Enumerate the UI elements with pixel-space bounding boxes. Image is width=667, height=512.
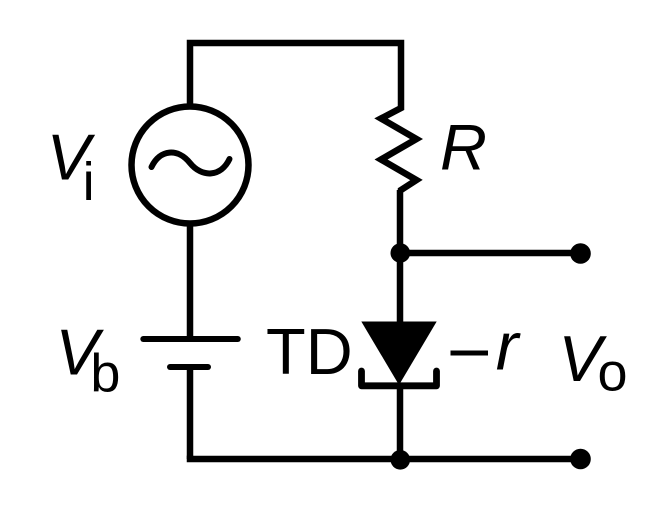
svg-text:R: R [440, 111, 487, 184]
wire battery to bottom [187, 367, 194, 459]
svg-text:TD: TD [266, 315, 353, 388]
AC source Vi circle [132, 107, 249, 224]
svg-text:i: i [83, 152, 95, 212]
node A junction dot [391, 243, 411, 263]
output terminal top dot [570, 243, 591, 264]
wire output top [400, 250, 580, 257]
wire diode to bottom node [397, 384, 404, 459]
wire top loop [190, 43, 401, 107]
battery Vb short plate [170, 364, 208, 370]
wire node A to diode [397, 253, 404, 322]
sine wave inside source [152, 153, 230, 174]
svg-text:r: r [496, 309, 521, 385]
wire resistor to node A [397, 190, 404, 253]
wire bottom rail [190, 456, 580, 459]
svg-text:o: o [598, 342, 628, 402]
wire source to battery [187, 223, 194, 336]
tunnel diode TD cathode bracket [362, 371, 437, 386]
tunnel diode TD triangle [361, 322, 436, 386]
resistor R zigzag [381, 106, 417, 192]
output terminal bottom dot [570, 449, 591, 470]
label minus sign [451, 351, 489, 356]
battery Vb long plate [143, 336, 238, 342]
svg-text:b: b [90, 344, 120, 404]
bottom junction dot [391, 450, 411, 470]
